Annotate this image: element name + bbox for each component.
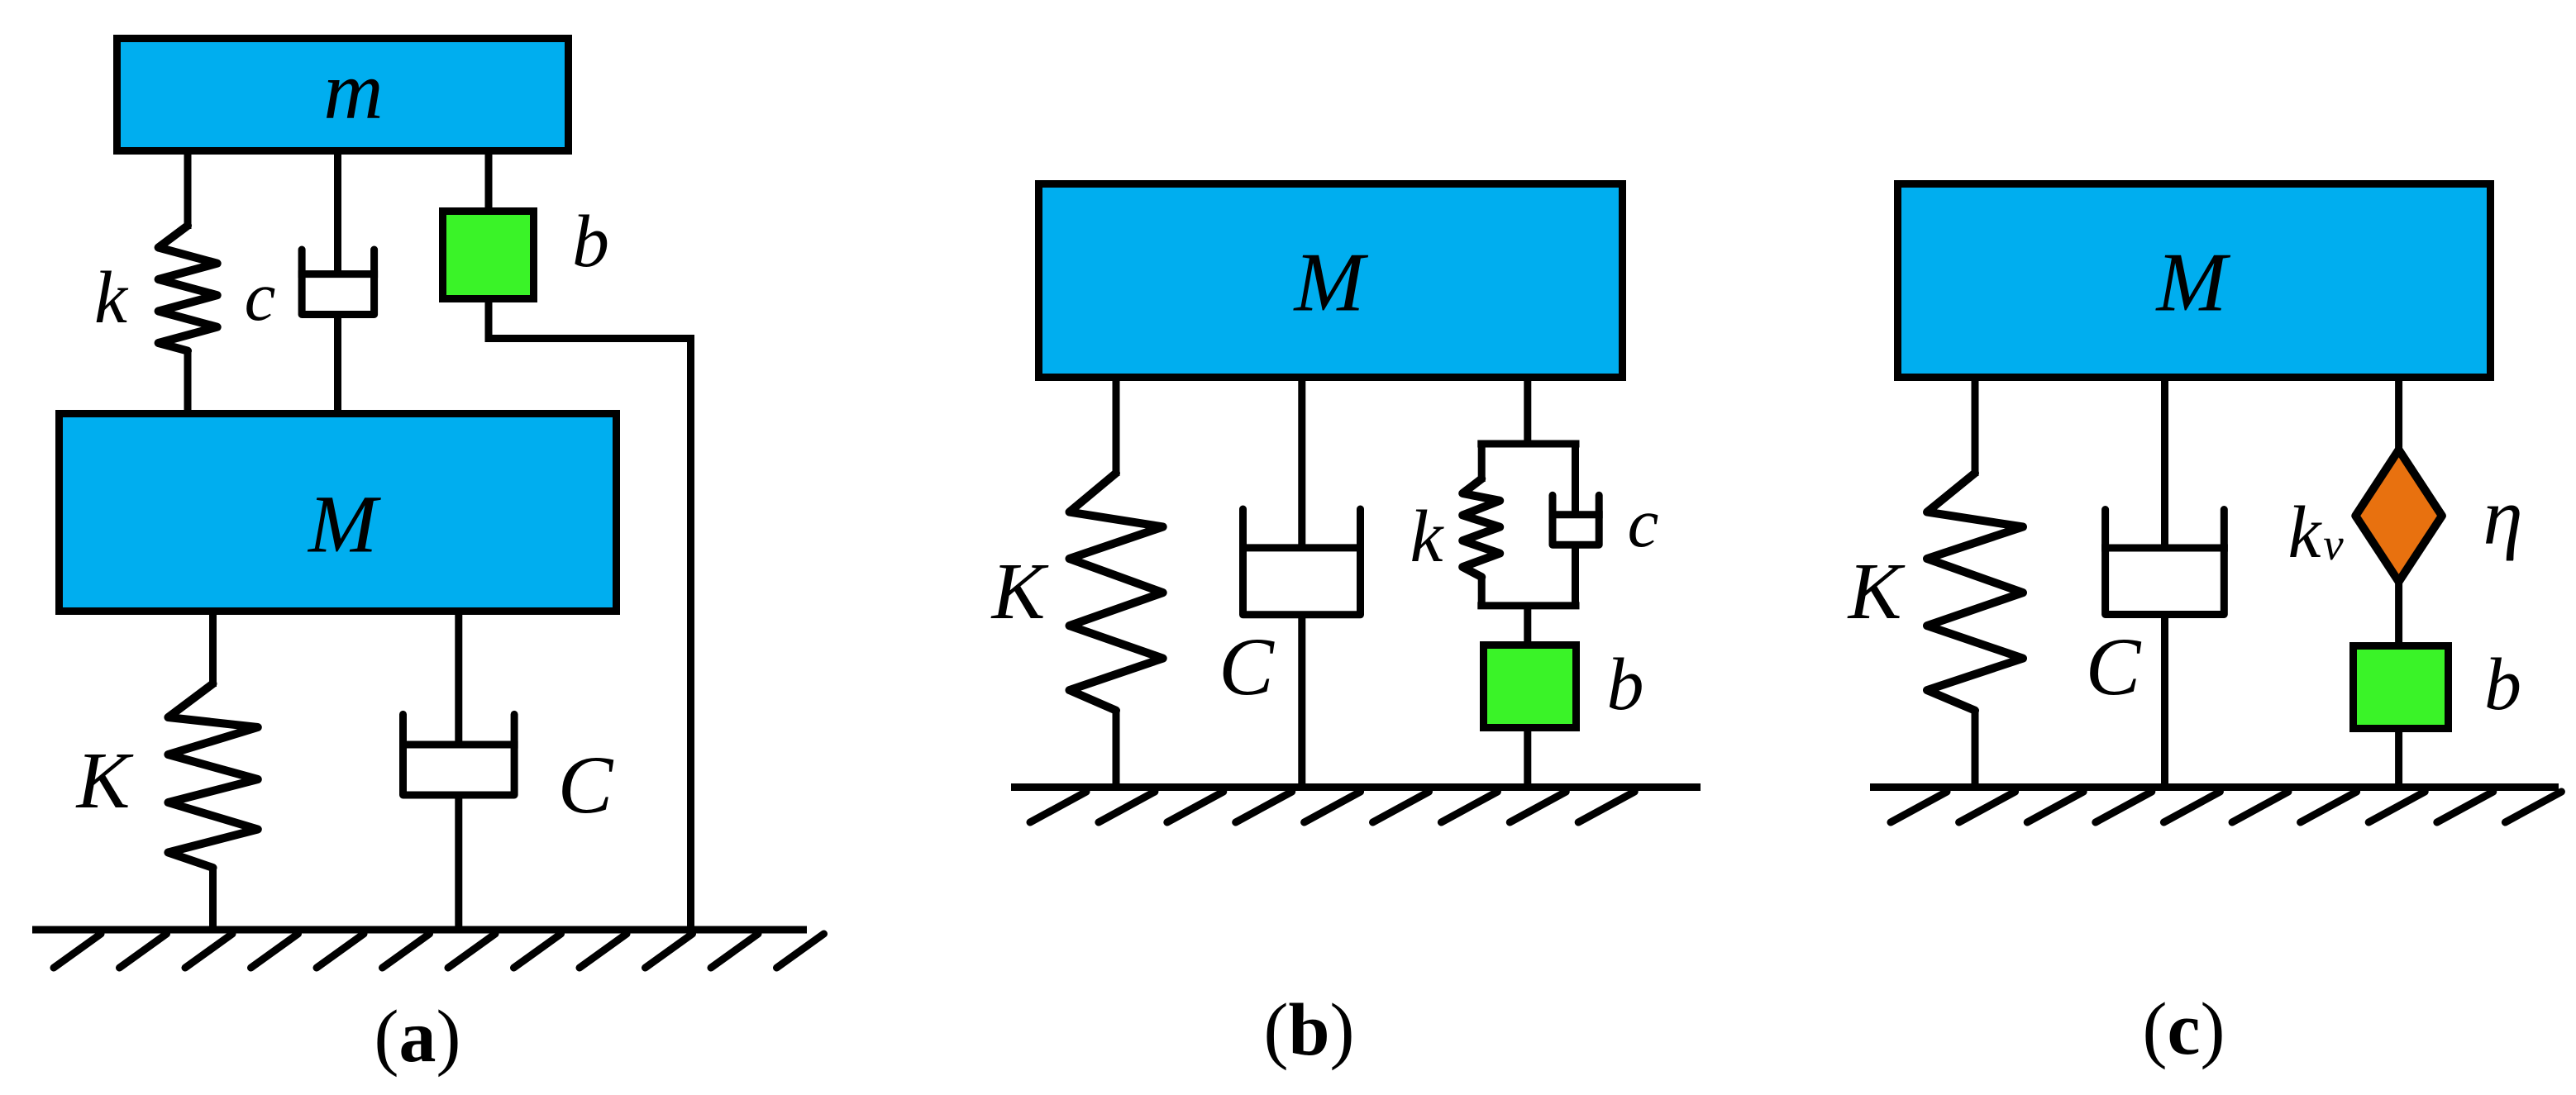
wire spring K to ground — [209, 868, 217, 930]
svg-text:M: M — [2155, 236, 2231, 330]
wire spring K to ground (part c) — [1972, 711, 1979, 788]
wire M to spring K — [209, 612, 217, 688]
wire M to spring K (part c) — [1972, 378, 1979, 477]
ground hatching (part a) — [54, 934, 824, 968]
svg-text:(c): (c) — [2143, 988, 2225, 1070]
svg-text:η: η — [2483, 473, 2522, 561]
svg-text:k: k — [94, 257, 129, 339]
wire M to k-c combination (part b) — [1524, 378, 1531, 448]
svg-text:k: k — [1410, 496, 1445, 578]
svg-text:v: v — [2323, 519, 2344, 569]
wire m to inerter b — [485, 151, 493, 212]
ground hatching (part b) — [1030, 792, 1634, 822]
svg-text:K: K — [1847, 547, 1906, 636]
ground hatching (part c) — [1891, 792, 2561, 822]
wire diamond to inerter b (part c) — [2395, 582, 2402, 645]
damper c (part b) — [1549, 444, 1603, 606]
mass m (part a) — [117, 39, 569, 151]
wire spring K to ground (part b) — [1113, 711, 1120, 788]
svg-text:(a): (a) — [374, 996, 461, 1078]
inerter b (green box, part c) — [2354, 646, 2449, 729]
k-c parallel frame top bar — [1477, 440, 1579, 448]
svg-text:(b): (b) — [1263, 989, 1354, 1071]
damper c (part a) — [298, 151, 379, 414]
spring K (part c) — [1927, 473, 2023, 710]
damper C (part c) — [2101, 378, 2228, 788]
spring k (part a) — [159, 226, 217, 351]
ground line (part a) — [32, 926, 807, 934]
svg-text:b: b — [1607, 644, 1644, 726]
spring K (part a) — [168, 683, 257, 868]
wire M to spring K (part b) — [1113, 378, 1120, 477]
inerter b (green box, part b) — [1484, 645, 1577, 728]
mass M (part a) — [60, 414, 617, 612]
svg-text:c: c — [1628, 484, 1659, 562]
mass M (part b) — [1039, 184, 1623, 378]
svg-text:c: c — [245, 258, 276, 336]
inerter b (green box, part a) — [443, 212, 534, 299]
svg-text:M: M — [1293, 236, 1369, 330]
spring K (part b) — [1070, 473, 1163, 710]
svg-text:M: M — [307, 478, 381, 570]
svg-text:b: b — [2484, 644, 2521, 726]
mass M (part c) — [1898, 184, 2491, 378]
k-c parallel frame bottom bar — [1477, 602, 1579, 609]
wire M to viscoelastic element (part c) — [2395, 378, 2402, 453]
spring k (part b) — [1462, 478, 1500, 577]
viscoelastic element kv/eta (orange diamond) — [2355, 450, 2442, 582]
svg-text:b: b — [572, 201, 609, 283]
svg-text:k: k — [2288, 492, 2323, 574]
svg-text:K: K — [75, 736, 134, 825]
frame left leg lower — [1478, 577, 1486, 606]
wire m to spring k — [184, 151, 192, 230]
ground line (part c) — [1870, 783, 2559, 791]
ground line (part b) — [1011, 783, 1701, 791]
svg-text:C: C — [1219, 621, 1275, 712]
wire inerter b to ground (part c) — [2395, 729, 2402, 788]
svg-text:C: C — [558, 739, 614, 831]
wire inerter b to ground (part b) — [1524, 728, 1531, 788]
wire spring k to mass M — [184, 351, 192, 413]
wire frame to inerter b (part b) — [1524, 606, 1531, 645]
wire inerter b to ground (right side) — [489, 299, 691, 931]
frame left leg upper — [1478, 444, 1486, 482]
svg-text:K: K — [990, 547, 1049, 636]
svg-text:C: C — [2086, 621, 2142, 712]
damper C (part a) — [399, 612, 518, 931]
damper C (part b) — [1239, 378, 1364, 788]
svg-text:m: m — [323, 45, 383, 136]
